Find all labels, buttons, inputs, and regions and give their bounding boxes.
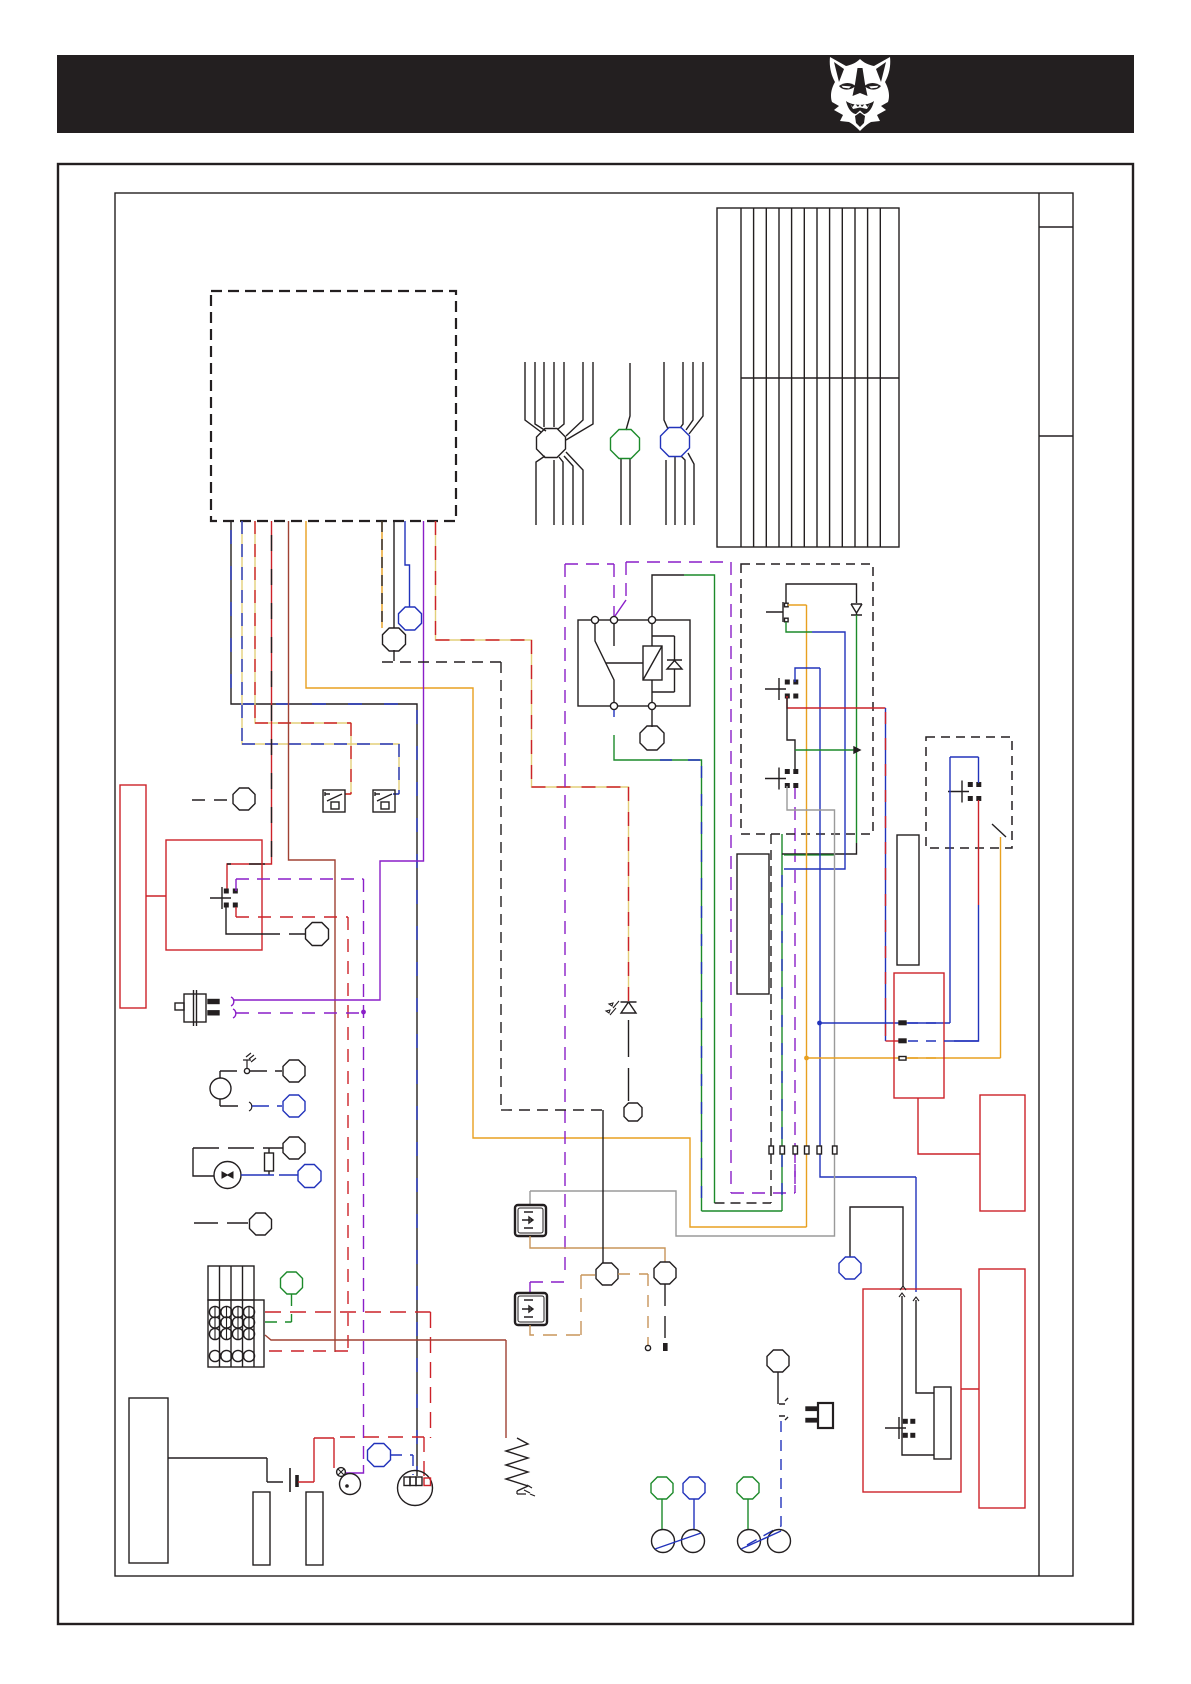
battery red box [980, 1095, 1025, 1211]
red bracket regulator to magneto [961, 1388, 979, 1390]
orange wire from key [807, 837, 1001, 1058]
switch SW4 [948, 781, 969, 803]
flasher relay A box [515, 1205, 546, 1236]
octagon below relay [651, 710, 653, 727]
wire ECU pin7 black/orange dashed to octagon [381, 521, 383, 628]
horn relay red box [166, 840, 262, 950]
relay terminal circles [591, 616, 655, 709]
harness bundle into main octagon: upper wires [525, 362, 593, 440]
legend divider 1 [1039, 226, 1073, 228]
fuse box lower housing [208, 1300, 264, 1367]
contact breaker points [340, 1474, 361, 1495]
flasher indicator lamp [214, 1162, 241, 1189]
fuse unit pins [899, 1021, 906, 1060]
dashed stub to spare octagon [194, 1222, 248, 1224]
brake plug connector [818, 1403, 833, 1428]
green-blue wire SW1 bottom [786, 622, 812, 632]
outer border [58, 164, 1133, 1624]
horn [210, 1078, 231, 1099]
brake switch rear [373, 790, 395, 812]
horn relay solenoid [210, 887, 231, 909]
red link between red boxes [146, 895, 166, 897]
green octagon wire upper [626, 363, 630, 430]
headlight unit [184, 994, 206, 1022]
green octagon wires lower [621, 458, 630, 525]
ignition coil red box tall [120, 785, 146, 1008]
solenoid blue octagon [368, 1444, 391, 1467]
regulator terminal hooks [899, 1293, 919, 1301]
relay switch arm [595, 624, 614, 702]
inner border [115, 193, 1073, 1576]
horn bottom wire [220, 1099, 238, 1106]
brake switch front [323, 790, 345, 812]
octagon ECU black connector [383, 628, 406, 651]
octagon front connector [306, 923, 329, 946]
purple dashed lo-beam [233, 1009, 236, 1018]
regulator red box [863, 1289, 961, 1492]
legend column line [1038, 193, 1040, 1576]
blue harness octagon [661, 428, 690, 457]
orange wire SW1 to main run [788, 605, 807, 1227]
octagon horn black [283, 1060, 305, 1082]
octagon ECU blue connector [399, 607, 422, 630]
octagon horn blue [283, 1095, 305, 1117]
relay box outline [578, 620, 690, 706]
horn ground switch [243, 1053, 256, 1069]
green harness octagon [611, 430, 640, 459]
multi-pin connector block [717, 208, 899, 547]
red dashed from solenoid to fuse box [236, 907, 348, 1351]
wire ECU pin1 black/blue to starter [231, 521, 417, 1476]
ignition switch dashed box [926, 737, 1012, 848]
wire SW1 top to diode [786, 584, 857, 603]
blue wire SW2 to regulator [795, 668, 916, 1292]
purple dashed harness run right [626, 562, 795, 1193]
dashed pin links inside fuse unit [908, 1023, 944, 1041]
blue/red drop wire [885, 708, 887, 1041]
black wire octagon2 to terminal [664, 1284, 666, 1344]
ECU dashed box [211, 291, 456, 521]
tan wire flasher A to octagon [530, 1236, 665, 1262]
octagon flasher blue [298, 1165, 321, 1188]
purple hi-beam hook [231, 997, 234, 1006]
legend divider 2 [1039, 435, 1073, 437]
flasher lamp circuit wires [193, 1147, 269, 1149]
switch SW3 [765, 768, 786, 790]
octagon turn indicator connector [624, 1103, 642, 1121]
black link SW2-SW3 [787, 698, 795, 770]
LED indicator symbol [606, 1001, 637, 1101]
battery case [129, 1398, 168, 1563]
black dashed link to handlebar drop [715, 834, 772, 1203]
gray wire SW3 to flasher [530, 786, 835, 1236]
tail light wire down [778, 1372, 788, 1420]
wire ECU pin2 blue/yellow to brake switch 2 [242, 521, 399, 794]
green accessory octagon [281, 1272, 303, 1294]
header bar [57, 55, 1134, 133]
blue dashed wire to lamp [747, 1421, 781, 1545]
front harness octagon 2 [654, 1262, 676, 1284]
front harness octagon 1 [596, 1263, 618, 1285]
tail light octagon [767, 1350, 789, 1372]
wire into octagon1 from above [602, 1110, 604, 1263]
green wire from diode down [856, 615, 858, 843]
contact breaker cam [337, 1468, 346, 1477]
fuses [209, 1306, 254, 1361]
connector block pin lines [741, 208, 880, 547]
octagon connector upper left [233, 788, 255, 810]
battery symbol [168, 1458, 283, 1482]
wire ECU pin11 red/yellow dashed to LED [436, 521, 629, 1001]
wire ECU pin4 red/black to horn relay [227, 521, 272, 891]
wire ECU pin9 blue to octagon [405, 521, 410, 607]
blue wire into SW4 [950, 757, 979, 1023]
green wire octagon to fuse box [265, 1294, 292, 1322]
black wire solenoid to octagon [226, 907, 305, 934]
purple wire SW3 drop [794, 1150, 796, 1193]
regulator inner rect [934, 1387, 951, 1459]
flasher relay B box [515, 1293, 547, 1325]
handlebar switch dashed box [741, 564, 873, 834]
green jumper with arrow [795, 749, 854, 751]
key lever [992, 824, 1006, 837]
wire ECU pin8 black to octagon [393, 521, 395, 628]
tan wire flasher B to octagon [530, 1275, 596, 1335]
coil black box [897, 835, 919, 965]
wire ECU pin6 orange long run [306, 521, 807, 1227]
hook terminal at regulator top [900, 1286, 906, 1290]
regulator relay symbol [885, 1417, 906, 1439]
red wire SW2 bottom [787, 696, 886, 708]
switch SW1 lever [766, 602, 783, 622]
blue octagon wires lower [666, 453, 694, 525]
purple link to points [346, 1465, 364, 1473]
lamp bulbs [652, 1530, 675, 1553]
magneto red box [979, 1269, 1025, 1508]
turn lamp octagon green L1 [651, 1477, 673, 1499]
wire ECU pin10 purple to headlight [233, 521, 424, 1000]
turn lamp octagon blue [683, 1477, 705, 1499]
horn top wire [220, 1070, 282, 1072]
blue wire octagon to starter [391, 1455, 413, 1475]
blue octagon wires upper [664, 362, 703, 434]
black wire to regulator [850, 1207, 903, 1287]
green wire relay T3 up-over-down [652, 575, 684, 616]
harness bundle main octagon lower wires [536, 452, 583, 525]
ballast resistor [265, 1153, 274, 1171]
purple dashed harness run left [530, 564, 614, 1293]
wire ECU pin3 red/yellow to brake switch 1 [255, 521, 351, 794]
lamp feed wires [662, 1499, 748, 1530]
fuse box upper housing [208, 1266, 254, 1300]
CDI black box [737, 854, 769, 994]
rubber mounts [253, 1492, 270, 1565]
red wire battery to points and starter [298, 1438, 334, 1482]
blue bus to fuse unit [820, 1022, 951, 1024]
inline connector pins row [769, 1146, 837, 1154]
turn lamp octagon green L2 [737, 1477, 759, 1499]
blue octagon rear connector [839, 1257, 861, 1279]
purple dashed from solenoid [236, 879, 364, 1465]
brown wire fuse box to resistor [265, 1335, 506, 1438]
red link fuse unit to battery box [918, 1098, 980, 1154]
regulator internal wires [902, 1296, 934, 1455]
green/blue wire relay T4 down [613, 710, 615, 717]
blue wire flasher to octagon [241, 1174, 298, 1176]
relay coil [643, 646, 662, 680]
wolf logo [830, 57, 891, 131]
black dashed riser [382, 650, 501, 1110]
dashed stub to octagon [192, 799, 233, 801]
switch SW2 [765, 678, 786, 700]
diode D1 [851, 604, 862, 615]
red feed fuse box to starter [265, 1312, 431, 1438]
fuse unit red box [894, 973, 944, 1098]
connector block divider [741, 377, 899, 379]
wire ECU pin5 dark-red to fuse box [289, 521, 336, 1352]
tan dashed from octagon1 to terminal [618, 1274, 648, 1345]
octagon flasher black [283, 1137, 305, 1159]
starter motor [398, 1471, 433, 1506]
octagon spare [250, 1213, 272, 1235]
filament diagonals [655, 1531, 781, 1549]
ballast resistor zigzag [506, 1438, 528, 1491]
main harness octagon [537, 429, 566, 458]
red/blue wire SW4 down [978, 800, 980, 905]
orange junction dot [804, 1056, 809, 1061]
relay diode [652, 636, 682, 692]
